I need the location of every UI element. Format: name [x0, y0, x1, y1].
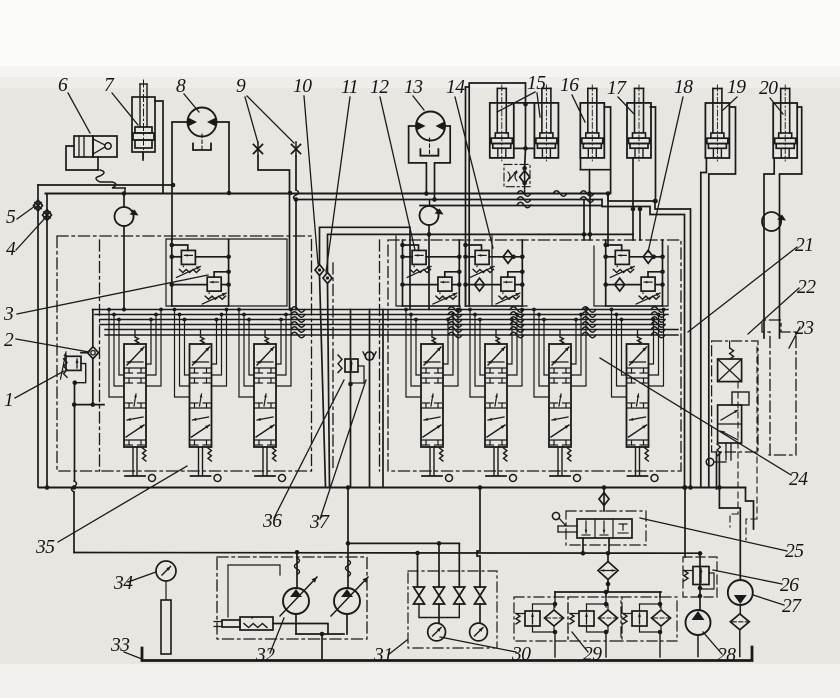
label 11 [326, 77, 358, 272]
label 36 [262, 380, 344, 532]
enclosure 31 [408, 571, 497, 648]
check valve 37 [363, 352, 376, 360]
box 22 enclosure [712, 341, 758, 452]
wire pipe left of 8 [172, 122, 188, 240]
svg-text:4: 4 [6, 239, 16, 260]
label 22 [748, 277, 816, 334]
directional valve A3 [254, 330, 286, 482]
label 19 [723, 77, 746, 110]
node junctions on y487 [45, 485, 722, 490]
wire pair A outline [166, 239, 287, 306]
label 24 [600, 358, 808, 490]
wire valve B3 port links [532, 308, 588, 397]
label 1 [4, 371, 64, 411]
relief valve 26 [684, 567, 714, 590]
servo cylinder 32 [214, 617, 273, 630]
valve 9b (plug) [292, 142, 301, 156]
svg-text:35: 35 [35, 537, 55, 558]
label 26 [713, 570, 799, 596]
svg-text:10: 10 [293, 76, 312, 97]
wire valve A1 port links [107, 308, 163, 397]
svg-text:6: 6 [58, 75, 68, 96]
gauge 34 [156, 561, 176, 581]
relief pair group B-3 with checks 18 [603, 240, 664, 306]
coupling 10 (quick coupler) [315, 265, 324, 276]
wire suction line y552 [74, 551, 700, 587]
wire 17 down [632, 158, 634, 209]
svg-text:16: 16 [560, 75, 579, 96]
svg-text:23: 23 [795, 318, 814, 339]
wire inlet group A [72, 310, 104, 407]
wire coupling10 down [320, 275, 326, 487]
node junction 290/193 [288, 191, 293, 196]
label 28 [703, 632, 736, 666]
cylinder 17 [627, 85, 651, 161]
svg-text:34: 34 [113, 573, 133, 594]
directional valve B4 [627, 330, 659, 482]
directional valve A2 [190, 330, 222, 482]
wire pipe right of 19 [709, 107, 736, 488]
enclosure partition 99 [99, 240, 101, 471]
wire from 9a [258, 156, 290, 310]
svg-text:20: 20 [759, 78, 778, 99]
tank line 33 [142, 647, 752, 661]
enclosure group B [388, 240, 681, 471]
gauge 30b [470, 623, 488, 641]
shutoff valve 31-2 [434, 587, 445, 604]
wire mid vertical 369 [369, 310, 371, 488]
wire valve B4 port links [610, 308, 666, 397]
wire pump drain [321, 634, 323, 660]
wire loop over 15 [466, 83, 526, 306]
directional valve B1 [421, 330, 453, 482]
wire coupling11 down [328, 283, 330, 487]
cylinder 20 [773, 85, 797, 161]
wire bus line y199 [296, 200, 685, 488]
cylinder 15a [490, 85, 514, 161]
wire motor13 down to group B [428, 225, 430, 310]
svg-text:18: 18 [674, 77, 693, 98]
svg-text:36: 36 [262, 511, 282, 532]
wire pipe right of 20 [780, 107, 802, 338]
wire feed 25 [599, 488, 609, 512]
gauge 30a [428, 623, 446, 641]
coupling 11 (quick coupler) [323, 273, 332, 284]
node junction 690/488 [682, 485, 693, 490]
wire below 22 [717, 452, 720, 508]
enclosure divider dashdot [333, 240, 380, 471]
label 14 [446, 77, 493, 248]
wire left margin vertical A [37, 185, 39, 487]
enclosure 32 [217, 557, 367, 639]
wire pipe left of 13 [409, 126, 429, 196]
wire pump feeds [295, 543, 351, 588]
svg-text:9: 9 [236, 76, 246, 97]
label 32 [255, 618, 284, 666]
wire pair D outline [594, 246, 668, 306]
label 13 [404, 77, 424, 110]
label 21 [688, 235, 814, 332]
enclosure 26 [683, 557, 717, 597]
valve 22 (brake valve) [706, 341, 749, 466]
svg-text:24: 24 [789, 469, 808, 490]
relief valve 36 [338, 355, 364, 386]
wire pipe from 6 [66, 146, 98, 170]
wire drop 590 [589, 194, 591, 241]
cylinder 7 [132, 80, 155, 158]
label 15 leaders [497, 92, 540, 117]
valve 4 (coupling) [43, 210, 52, 221]
enclosure 25 [566, 511, 646, 545]
label 20 [759, 78, 783, 114]
directional valve B3 [549, 330, 581, 482]
node junction 525/104 [523, 102, 528, 107]
node junction 296/199 [294, 197, 299, 202]
wire valve B1 port links [404, 308, 460, 397]
node junction 173/185 [171, 183, 176, 188]
label 4 [6, 217, 46, 260]
relief valve 1 [61, 352, 82, 379]
svg-text:12: 12 [370, 77, 389, 98]
shutoff valve 31-4 [475, 587, 486, 604]
wire to 27 [719, 508, 740, 580]
flow indicator under 13 [420, 206, 444, 225]
wire 20 down [764, 158, 774, 338]
wire return line y185 [38, 184, 173, 186]
filter unit 29-3 [621, 597, 677, 657]
wire link cylinders 15 [514, 103, 535, 168]
enclosure group A (35) [57, 236, 312, 471]
label 9 leaders [245, 96, 294, 143]
label 6 [58, 75, 90, 133]
pilot dashed line a [730, 382, 738, 527]
wire drop 633 [632, 209, 634, 240]
pump 32b [331, 577, 368, 616]
label 31 [373, 640, 407, 666]
wire pipe right of 17 [650, 107, 658, 203]
wire valve B2 port links [468, 308, 524, 397]
svg-text:11: 11 [341, 77, 358, 98]
wire feed pair D [607, 194, 609, 247]
svg-text:27: 27 [782, 596, 802, 617]
wire 25 outputs [581, 538, 703, 556]
wire 26 vertical [698, 553, 703, 610]
shutoff valve 31-1 [414, 587, 425, 604]
wire bus line y205 [420, 205, 602, 207]
label 18 [648, 77, 693, 252]
label 34 [113, 572, 156, 594]
filter under 25 [598, 553, 618, 591]
check unit below 15 (flow control) [504, 164, 530, 193]
wire pump internals [228, 565, 280, 617]
wire valve A2 port links [173, 308, 229, 397]
valve 25 (pilot control) [552, 512, 632, 538]
check valve 2 [88, 347, 99, 359]
valve 9a (plug) [254, 142, 263, 156]
svg-text:26: 26 [780, 575, 799, 596]
wire stub 685 [683, 485, 688, 557]
node junction 229/193 [227, 191, 232, 196]
valve 5 (coupling) [34, 200, 43, 211]
wire mid vertical 350 [350, 310, 352, 488]
flow indicator group A feed [115, 207, 139, 226]
wire pipe right of 7 [155, 101, 163, 193]
filter under 27 [730, 614, 749, 657]
wire suction to pump 1 [72, 383, 77, 553]
label 27 [753, 595, 802, 617]
wire pair B outline [396, 236, 460, 310]
wire 6 to junction [124, 188, 126, 194]
label 37 [309, 380, 366, 533]
svg-text:25: 25 [785, 541, 804, 562]
flow indicator 20 branch [762, 212, 786, 231]
cylinder 15b [534, 85, 558, 161]
wire from 9b [294, 156, 299, 310]
wire drain of 6 with jogs [96, 170, 125, 188]
relief pair 3 (group A) [170, 240, 231, 306]
label 23 [789, 318, 814, 348]
coupling 11 feed line [328, 232, 634, 273]
wire left margin vertical B [46, 194, 48, 488]
svg-text:14: 14 [446, 77, 465, 98]
label 7 [104, 75, 138, 125]
svg-text:2: 2 [4, 330, 14, 351]
svg-text:28: 28 [717, 645, 736, 666]
enclosure 23 [762, 320, 796, 455]
wire pipe right of 13 [430, 126, 451, 206]
svg-text:29: 29 [583, 644, 602, 665]
directional valve B2 [485, 330, 517, 482]
label 29 [572, 632, 602, 665]
svg-text:31: 31 [373, 645, 393, 666]
cylinder 19 [705, 85, 729, 161]
label 2 [4, 330, 89, 352]
label 12 [370, 77, 415, 250]
node pump feed dots [295, 541, 351, 554]
wire 16 down [581, 158, 611, 196]
coupling 10 feed line [320, 227, 411, 309]
label 25 [640, 518, 804, 562]
wire comb bus lines [93, 307, 679, 338]
svg-text:17: 17 [607, 78, 627, 99]
label 16 [560, 75, 585, 122]
label 35 [35, 466, 187, 558]
wire feed 124 [122, 191, 127, 311]
shutoff valve 31-3 [454, 587, 465, 604]
pump 32a [280, 577, 317, 616]
label 9 [236, 76, 246, 97]
filter unit 29-2 [568, 597, 622, 657]
motor 27 [728, 580, 753, 614]
wire 31 manifold [419, 604, 480, 623]
wire pipe bottom of 7 [142, 152, 144, 160]
directional valve A1 [124, 330, 156, 482]
svg-text:5: 5 [6, 207, 16, 228]
thermometer 33 [161, 581, 171, 654]
svg-text:22: 22 [797, 277, 816, 298]
label 33 [110, 635, 142, 659]
svg-text:3: 3 [3, 304, 14, 325]
wire sjogs upper bus [517, 191, 594, 208]
wire valve A3 port links [237, 308, 293, 397]
svg-text:15: 15 [527, 73, 546, 94]
wire pair C outline [492, 236, 527, 306]
label 8 [176, 76, 199, 112]
label 5 [6, 206, 35, 228]
wire drop 584 [583, 200, 585, 241]
wire filters feed line [555, 590, 661, 597]
wire pipe right of 16 [581, 107, 611, 170]
motor 8 [188, 108, 217, 151]
wire mid vertical 383 [382, 310, 384, 488]
cylinder 6 (master brake cylinder) [74, 136, 117, 157]
label 17 [607, 78, 634, 114]
relief pair 12 (group B-1) [400, 240, 461, 306]
wire drop 640 [638, 207, 643, 240]
pilot dashed line b [746, 347, 757, 540]
wire 31 feeds [437, 488, 480, 588]
svg-text:37: 37 [309, 512, 330, 533]
svg-text:13: 13 [404, 77, 423, 98]
wire branch to pump2 [346, 485, 460, 543]
label 30 [440, 637, 531, 665]
relief pair group B-2 with checks [463, 240, 524, 306]
wire 19 down [701, 158, 707, 488]
wire servo pipe [273, 614, 347, 636]
label 15 [527, 73, 546, 94]
label 3 [3, 275, 208, 325]
svg-text:1: 1 [4, 390, 13, 411]
wire main pressure line y193 [46, 191, 691, 487]
filter unit 29-1 [514, 597, 568, 657]
pump 28 [686, 610, 711, 657]
svg-text:30: 30 [511, 644, 531, 665]
wire pipe right of 8 [217, 122, 230, 193]
label 10 [293, 76, 318, 264]
wire main return y487 [39, 488, 754, 530]
svg-text:19: 19 [727, 77, 746, 98]
svg-text:21: 21 [795, 235, 814, 256]
cylinder 16 [580, 85, 604, 161]
motor 13 [416, 112, 445, 156]
